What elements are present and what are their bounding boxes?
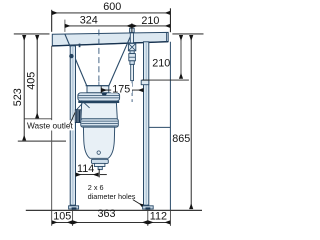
disposer top collar bbox=[78, 93, 120, 101]
left leg top bolt bbox=[69, 54, 73, 58]
bottom stub bbox=[94, 163, 105, 166]
405 target line bbox=[24, 118, 52, 120]
under-slab clip bbox=[79, 44, 81, 48]
svg-text:Waste outlet: Waste outlet bbox=[27, 121, 74, 131]
svg-text:523: 523 bbox=[12, 88, 24, 106]
svg-text:210: 210 bbox=[152, 57, 170, 69]
523 target line bbox=[18, 140, 66, 142]
body clamp band bbox=[78, 101, 119, 103]
svg-text:210: 210 bbox=[141, 15, 159, 27]
dim 112 bbox=[148, 221, 170, 223]
valve stem through slab bbox=[130, 33, 133, 43]
bell cap bbox=[91, 159, 108, 163]
svg-text:865: 865 bbox=[172, 133, 190, 145]
ground line bbox=[26, 209, 202, 211]
left datum line bbox=[14, 33, 50, 35]
dim 105 bbox=[52, 221, 73, 223]
waste outlet flange bbox=[75, 110, 81, 123]
disposer neck bbox=[87, 86, 109, 93]
svg-text:324: 324 bbox=[80, 15, 98, 27]
dim 324 bbox=[65, 25, 132, 27]
funnel left edge bbox=[65, 34, 87, 86]
svg-text:405: 405 bbox=[25, 72, 37, 90]
tabletop right edge inner line bbox=[166, 33, 168, 42]
left foot bbox=[69, 206, 79, 209]
right leg bracket bbox=[141, 80, 149, 85]
right foot bbox=[143, 206, 154, 209]
motor bell bbox=[83, 127, 114, 158]
water valve inlet above slab bbox=[130, 28, 135, 32]
tabletop front bottom edge bbox=[52, 42, 168, 46]
svg-text:114: 114 bbox=[77, 163, 94, 175]
svg-text:363: 363 bbox=[98, 208, 116, 220]
left leg bbox=[70, 46, 75, 205]
right datum line bbox=[172, 33, 203, 35]
dim 865 bbox=[190, 35, 192, 209]
side panel bottom rail bbox=[149, 126, 171, 128]
waste outlet label bbox=[26, 120, 75, 130]
svg-text:175: 175 bbox=[112, 83, 130, 95]
svg-text:diameter holes: diameter holes bbox=[88, 192, 136, 201]
disposer lower band bbox=[81, 119, 119, 127]
extension line 324 left bbox=[64, 20, 66, 32]
valve hose tube bbox=[131, 64, 134, 80]
svg-text:105: 105 bbox=[53, 211, 71, 223]
valve small union bbox=[130, 61, 134, 65]
waste outlet leader bbox=[70, 112, 75, 124]
tabletop slab bbox=[52, 32, 168, 46]
valve connector bbox=[130, 51, 134, 54]
dim 405 bbox=[36, 35, 38, 118]
tail pipe bbox=[98, 167, 102, 170]
centerline bbox=[98, 30, 100, 83]
extension line left (tabletop edge) bbox=[51, 10, 53, 32]
rear right leg / side panel edge bbox=[169, 42, 171, 210]
extension line right (tabletop edge) bbox=[169, 8, 171, 32]
funnel right edge bbox=[109, 33, 132, 86]
outlet connector diagonal bbox=[82, 100, 90, 108]
valve centerline bbox=[131, 81, 133, 102]
dim 210 top bbox=[132, 25, 170, 27]
valve lower box bbox=[129, 54, 136, 61]
bottom extension lines bbox=[72, 210, 74, 226]
rail extension line bbox=[142, 79, 189, 81]
extension line 324/210 boundary bbox=[131, 23, 133, 32]
dim 175 bbox=[100, 86, 102, 93]
svg-text:112: 112 bbox=[150, 210, 167, 222]
bell plug circle bbox=[97, 151, 100, 154]
valve body box bbox=[128, 43, 135, 50]
dim 600 bbox=[52, 12, 170, 14]
dim 523 bbox=[23, 35, 25, 140]
collar clamp wedge bbox=[102, 93, 108, 96]
right leg bbox=[144, 42, 149, 205]
disposer upper body bbox=[81, 103, 117, 119]
dim 210 vertical bbox=[180, 35, 182, 78]
dim 363 bbox=[73, 221, 148, 223]
svg-text:600: 600 bbox=[103, 1, 121, 13]
